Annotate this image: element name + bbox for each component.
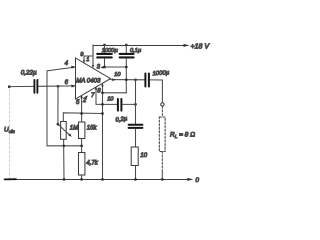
- wire C6 to R4: [135, 129, 137, 147]
- capacitor C3 0,22u plates: [34, 80, 37, 93]
- trimmer R1 wiper arrow: [58, 124, 70, 135]
- svg-text:1000µ: 1000µ: [152, 70, 170, 77]
- node 0 arrow: [187, 178, 193, 181]
- wire 4,7k bottom: [81, 175, 83, 179]
- capacitor C2 0,1u stub top: [125, 45, 127, 53]
- svg-text:+18 V: +18 V: [191, 44, 211, 51]
- capacitor C6 0,2u plates: [129, 125, 143, 128]
- load terminal circle: [161, 103, 164, 106]
- junction dot output/C2 branch: [125, 78, 128, 81]
- pin 10 arrow: [112, 78, 116, 81]
- pin 1 arrow: [92, 65, 94, 68]
- capacitor C1 1000u plates: [97, 54, 112, 58]
- junction dot output/zobel: [134, 78, 137, 81]
- pin 6 arrow: [71, 85, 76, 88]
- svg-text:RL = 8 Ω: RL = 8 Ω: [170, 132, 195, 140]
- junction dot zobel/cap line: [134, 103, 137, 106]
- wire C5 to load: [150, 80, 162, 103]
- junction dot pin8/cap line: [101, 103, 104, 106]
- svg-text:0,1µ: 0,1µ: [130, 48, 142, 54]
- junction dot C1/pin3: [103, 66, 106, 69]
- svg-text:1: 1: [86, 57, 89, 63]
- wire input lower dashed: [9, 89, 11, 179]
- wire C3 to pin 6: [39, 85, 76, 87]
- capacitor C1 1000u stub bottom: [104, 58, 106, 67]
- wire top supply rail: [93, 45, 187, 47]
- svg-text:10: 10: [140, 153, 147, 159]
- junction dot rail/load: [161, 178, 164, 181]
- svg-text:MA 0403: MA 0403: [76, 77, 101, 84]
- wire 1M bottom to ground rail: [63, 139, 65, 179]
- pin 5 arrow: [80, 95, 82, 98]
- svg-text:0: 0: [195, 177, 199, 184]
- wire zobel branch vertical: [135, 80, 137, 124]
- pin 3 arrow: [100, 66, 104, 69]
- load RL dashed body: [159, 117, 165, 152]
- junction dot rail/4,7k: [80, 178, 83, 181]
- svg-text:4,7k: 4,7k: [86, 161, 98, 167]
- wire R4 to ground: [135, 166, 137, 180]
- wire input to C3: [10, 85, 33, 87]
- wire 15k bottom: [81, 139, 83, 153]
- svg-text:2: 2: [82, 98, 87, 104]
- wire pin 7 drop: [96, 88, 117, 105]
- wire pin6 to trimmer wiper: [57, 86, 59, 124]
- capacitor C2 0,1u plates: [120, 54, 134, 58]
- junction dot rail/C1: [103, 44, 106, 47]
- junction dot 1M/feedback line: [62, 144, 65, 147]
- wire 1M top stub: [63, 113, 102, 122]
- junction dot rail/zobel: [134, 178, 137, 181]
- wire C2 bottom down to pin8 line: [103, 58, 127, 92]
- resistor R4 10 body: [131, 147, 138, 166]
- load RL dashed lead top: [161, 106, 163, 117]
- pin 7 arrow: [95, 86, 97, 89]
- junction dot C2 branch/pin3: [125, 66, 128, 69]
- capacitor C4 plates (pin7 line): [118, 99, 122, 111]
- junction dot 15k top line: [80, 112, 83, 115]
- pin 2 arrow: [84, 96, 87, 100]
- pin 4 arrow: [71, 66, 76, 69]
- wire pin 4 input: [47, 67, 82, 146]
- wire branch to pin9: [84, 56, 93, 62]
- wire pin 3 line: [102, 66, 126, 68]
- trimmer R1 1M body: [61, 122, 67, 140]
- resistor R3 4,7k body: [79, 153, 85, 176]
- wire pin 8 vertical to ground: [102, 85, 104, 180]
- pin 9 arrow: [83, 60, 85, 63]
- junction dot pin8/92.8 line: [101, 91, 104, 94]
- wire load to ground: [161, 170, 163, 180]
- junction dot pin8/113.5 line: [101, 112, 104, 115]
- svg-text:10: 10: [107, 97, 114, 103]
- junction dot rail/C2: [125, 44, 128, 47]
- node +18V arrow: [184, 44, 190, 47]
- wire output pin 10: [111, 79, 145, 81]
- capacitor C1 1000u stub top: [104, 45, 106, 53]
- svg-text:1M: 1M: [70, 125, 78, 131]
- junction dot pin6 node: [57, 85, 60, 88]
- resistor R2 15k body: [79, 122, 85, 139]
- svg-text:1000µ: 1000µ: [102, 48, 119, 54]
- wire 15k top to pins 5/2: [81, 96, 83, 122]
- op-amp U1 MA0403 triangle: [76, 58, 111, 99]
- wire rail to pin1 vertical: [92, 45, 94, 67]
- wire ground rail: [5, 179, 191, 181]
- ground rail left end thick: [5, 178, 17, 180]
- junction dot rail/1M: [63, 178, 66, 181]
- load RL dashed lead bottom: [161, 152, 163, 170]
- svg-text:15k: 15k: [87, 126, 98, 132]
- junction dot 15k/4,7k/feedback: [80, 144, 83, 147]
- junction dot rail/pin8: [101, 178, 104, 181]
- capacitor C5 1000u output plates: [145, 74, 149, 87]
- input terminal Uein: [8, 86, 10, 88]
- wire C4 to zobel node: [123, 103, 136, 105]
- svg-text:10: 10: [114, 72, 121, 78]
- junction dot wiper/pin6 wire: [57, 123, 60, 126]
- svg-text:0,22µ: 0,22µ: [21, 70, 37, 77]
- pin 8 arrow: [101, 83, 103, 86]
